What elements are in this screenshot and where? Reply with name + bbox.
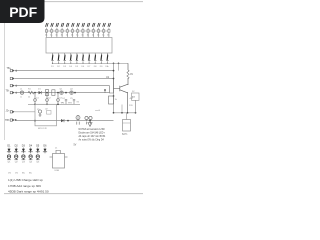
junction rail/vertical A xyxy=(113,63,115,65)
optocoupler U3 (twin circles) xyxy=(85,116,92,124)
wire row4 xyxy=(15,92,110,94)
PDF badge xyxy=(0,0,45,23)
crystal X1 xyxy=(38,110,41,117)
legend labels Q1-Q5 xyxy=(8,162,41,164)
capacitors C1 C2 C3 (drops to bus) xyxy=(34,93,60,105)
junction vertical A/row2 xyxy=(113,78,115,80)
svg-text:rev A: rev A xyxy=(95,109,100,112)
svg-text:As noted 5V dly Chrg D4: As noted 5V dly Chrg D4 xyxy=(79,138,105,141)
inductor L1 xyxy=(20,91,23,95)
svg-text:PDF: PDF xyxy=(9,4,37,20)
junctions lower bus xyxy=(34,103,36,105)
svg-text:BC: BC xyxy=(29,173,32,175)
sheet border bottom xyxy=(4,193,143,195)
junctions bottom right xyxy=(113,112,115,114)
transistor Q2 xyxy=(70,91,73,94)
connector TB3 xyxy=(10,84,15,86)
svg-text:5V: 5V xyxy=(74,145,77,147)
value labels C1 C2 C3 xyxy=(36,98,63,100)
transistor Q1 xyxy=(60,91,63,94)
svg-text:TB3: TB3 xyxy=(5,119,10,122)
wire top link bus xyxy=(45,30,109,32)
parts list text lines xyxy=(8,178,49,193)
designator labels K1-K13 (top optocoupler row) xyxy=(46,23,111,27)
capacitor C6 (electrolytic) xyxy=(76,116,80,125)
battery BAT1 xyxy=(123,120,131,132)
svg-text:17DB Add range sp 309: 17DB Add range sp 309 xyxy=(8,184,41,188)
node labels on bus (C4 C5 5V TP1 TP2) xyxy=(61,98,80,104)
junction wire/U2 edge xyxy=(34,120,36,122)
connector TB4 xyxy=(10,91,15,93)
svg-text:All caps uF 16V min BC54: All caps uF 16V min BC54 xyxy=(79,135,107,138)
IC U2 inner part xyxy=(47,111,52,115)
junction bottom wire 2 xyxy=(89,120,91,122)
legend part numbers row xyxy=(8,173,32,175)
junction bottom wire 1 xyxy=(67,120,69,122)
svg-text:BC: BC xyxy=(22,173,25,175)
value labels 1k (top row) xyxy=(45,35,110,37)
connector TB5 xyxy=(10,119,15,121)
wire right vertical A xyxy=(113,63,115,113)
IC U4 (small box) xyxy=(109,96,114,104)
svg-text:USB: USB xyxy=(55,170,60,172)
svg-text:1N: 1N xyxy=(15,173,18,175)
svg-text:TB+: TB+ xyxy=(7,67,12,70)
value labels D1-D10 xyxy=(51,65,109,68)
junctions row4 xyxy=(34,92,36,94)
optocouplers K1-K13 xyxy=(45,28,110,38)
resistor R9 (vertical with zigzag) xyxy=(127,63,129,113)
wire to regulator box xyxy=(135,100,137,113)
capacitor C4 xyxy=(65,100,67,105)
svg-text:J2+: J2+ xyxy=(6,110,11,113)
connector J1 (USB socket) xyxy=(50,150,68,168)
IC U2 (lower box) xyxy=(35,104,57,126)
junction TB4 xyxy=(15,92,17,94)
legend transistors Q1-Q5 xyxy=(7,155,39,160)
wire row3 xyxy=(15,85,110,87)
transistor Q3 xyxy=(114,84,129,93)
wire bottom right horizontal xyxy=(114,112,136,114)
ground xyxy=(88,121,92,127)
value labels row4 xyxy=(20,88,74,98)
junction vertical A/row1 xyxy=(113,70,115,72)
junction TB5 xyxy=(15,119,17,121)
wire J2 to U2 xyxy=(15,111,35,113)
wire U1 return loop xyxy=(105,79,114,94)
svg-text:MCU 12F: MCU 12F xyxy=(38,128,48,130)
connector TB1 xyxy=(10,69,15,71)
regulator U5 (small right box) xyxy=(132,93,140,100)
resistor R2 xyxy=(46,90,49,96)
junction TB1 xyxy=(15,70,17,72)
wire row2 xyxy=(15,78,114,80)
svg-text:NOTES all resistors 1/4W: NOTES all resistors 1/4W xyxy=(79,128,106,131)
connector J2 xyxy=(10,111,15,113)
wire right vertical B xyxy=(118,63,120,70)
sheet border left xyxy=(4,2,6,140)
diode D12 xyxy=(61,119,64,122)
junction rail/vertical B xyxy=(118,63,120,65)
connector TB2 xyxy=(10,77,15,79)
resistor R3 xyxy=(52,90,55,96)
wire row1 xyxy=(15,70,114,72)
notes text block xyxy=(79,128,107,141)
wire LED cathode rail xyxy=(53,62,129,64)
svg-text:TB-: TB- xyxy=(6,90,10,93)
svg-text:BAT1: BAT1 xyxy=(122,133,128,136)
legend labels D1-D6 xyxy=(7,145,47,148)
wire stub x=122 xyxy=(121,105,123,113)
wire loop box (bus rectangle) xyxy=(46,38,112,54)
junction vertical A mid xyxy=(113,95,115,97)
diode D11 xyxy=(39,91,42,94)
wire lower bus xyxy=(28,103,80,105)
resistor R1 xyxy=(28,91,34,94)
LEDs D1-D10 xyxy=(51,53,108,64)
svg-text:1(1) USB Charge LED sp: 1(1) USB Charge LED sp xyxy=(8,178,43,182)
junction TB3 xyxy=(15,85,17,87)
capacitor C5 xyxy=(73,100,75,105)
sheet border top xyxy=(4,1,143,3)
wire bottom row xyxy=(15,120,114,122)
svg-text:1N: 1N xyxy=(8,173,11,175)
legend diodes D1-D6 xyxy=(7,148,47,154)
wire battery lead xyxy=(126,113,128,120)
svg-text:45DB Dark range sp 4H91 50: 45DB Dark range sp 4H91 50 xyxy=(8,189,49,193)
junction node U1 xyxy=(104,89,106,91)
svg-text:Diodes are 1N4148 LED r: Diodes are 1N4148 LED r xyxy=(79,132,106,135)
